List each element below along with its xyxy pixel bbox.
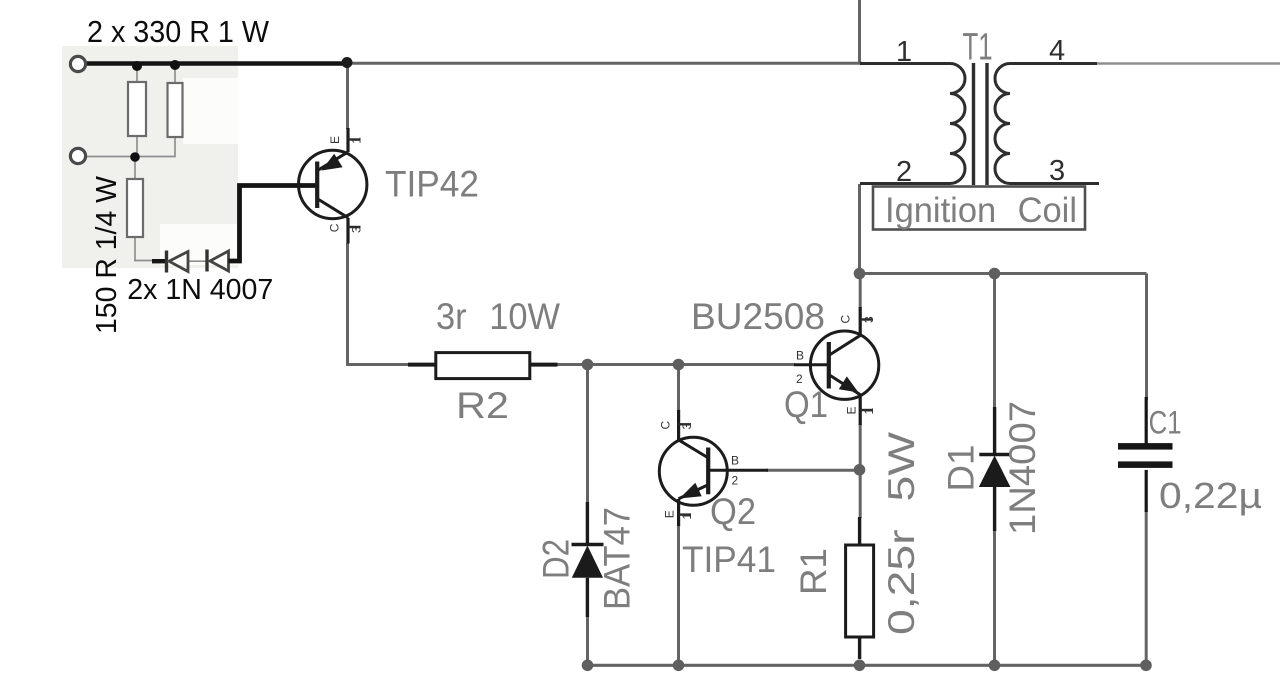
svg-text:0,22µ: 0,22µ [1159, 475, 1262, 516]
svg-text:TIP42: TIP42 [385, 164, 479, 205]
svg-text:1: 1 [862, 408, 876, 415]
svg-text:3r 10W: 3r 10W [436, 296, 560, 337]
svg-text:0,25r 5W: 0,25r 5W [881, 432, 922, 635]
svg-text:D1: D1 [941, 445, 982, 492]
svg-text:T1: T1 [963, 27, 993, 69]
svg-text:1N4007: 1N4007 [1002, 401, 1043, 535]
svg-text:2 x 330 R 1 W: 2 x 330 R 1 W [87, 14, 270, 49]
svg-text:1: 1 [680, 513, 694, 520]
svg-text:C: C [839, 315, 853, 324]
svg-text:B: B [796, 349, 804, 363]
svg-text:3: 3 [1049, 155, 1065, 187]
svg-text:R1: R1 [793, 548, 834, 595]
svg-text:3: 3 [680, 423, 694, 430]
svg-text:R2: R2 [456, 385, 509, 426]
svg-text:BAT47: BAT47 [597, 507, 638, 610]
svg-text:2: 2 [896, 156, 912, 188]
svg-text:3: 3 [862, 316, 876, 323]
svg-text:E: E [845, 406, 859, 414]
svg-text:TIP41: TIP41 [682, 539, 776, 580]
svg-text:C1: C1 [1149, 405, 1182, 441]
svg-text:4: 4 [1049, 35, 1065, 67]
svg-text:E: E [663, 510, 677, 518]
svg-text:Q1: Q1 [784, 384, 828, 425]
svg-text:C: C [328, 223, 342, 232]
svg-text:B: B [731, 454, 739, 468]
svg-text:1: 1 [896, 36, 912, 68]
svg-text:BU2508: BU2508 [691, 296, 825, 337]
svg-text:E: E [328, 136, 342, 144]
svg-text:2: 2 [732, 474, 739, 488]
svg-text:C: C [659, 421, 673, 430]
svg-text:D2: D2 [536, 539, 577, 579]
svg-text:Ignition Coil: Ignition Coil [885, 191, 1077, 230]
svg-text:1: 1 [350, 137, 364, 144]
svg-text:2x 1N 4007: 2x 1N 4007 [127, 274, 273, 306]
svg-text:Q2: Q2 [710, 491, 756, 532]
svg-text:150 R 1/4 W: 150 R 1/4 W [91, 175, 123, 334]
svg-text:3: 3 [350, 226, 364, 233]
